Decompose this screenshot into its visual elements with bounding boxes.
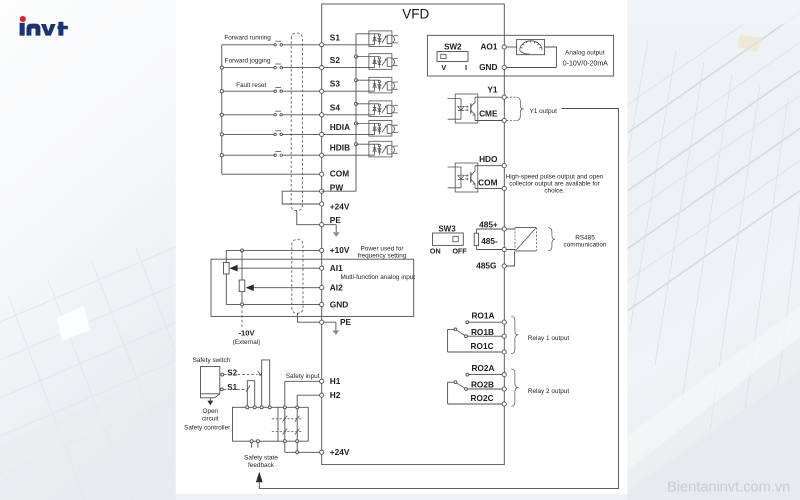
svg-text:+24V: +24V: [330, 202, 350, 212]
terminals controller top: [246, 406, 299, 409]
svg-text:Y1 output: Y1 output: [530, 108, 558, 115]
meter analog output: [517, 40, 545, 55]
wire AO1 to meter: [506, 46, 516, 48]
safety controller box: [233, 407, 279, 441]
svg-text:485+: 485+: [479, 219, 498, 229]
wire meter to GND: [506, 47, 556, 68]
svg-text:COM: COM: [330, 169, 349, 179]
wire HDIA row: [222, 133, 375, 135]
svg-text:RO2B: RO2B: [471, 380, 494, 390]
svg-text:Safety controller: Safety controller: [184, 425, 231, 432]
svg-text:Forward running: Forward running: [224, 35, 271, 42]
junction S3 on bus: [220, 90, 223, 93]
junction GND pot2: [241, 303, 244, 306]
wire COM output: [475, 187, 502, 189]
svg-text:HDIA: HDIA: [330, 122, 350, 132]
resistor RS485 terminator: [474, 229, 478, 250]
wire feedback loop: [259, 109, 618, 489]
svg-text:communication: communication: [564, 241, 607, 248]
terminal H2: [320, 390, 341, 400]
terminal +24V: [320, 202, 350, 212]
wire H1: [285, 381, 320, 452]
switch Forward jogging S2: [274, 64, 283, 69]
shielded cable analog input: [292, 240, 303, 314]
terminal RO2B: [471, 380, 506, 392]
wire RO1A: [469, 321, 502, 323]
svg-text:Relay 2 output: Relay 2 output: [528, 388, 569, 395]
svg-text:SW3: SW3: [438, 225, 456, 234]
terminal RO1A: [471, 311, 506, 325]
junction HDIA on bus: [220, 133, 223, 136]
svg-text:SW2: SW2: [444, 42, 462, 51]
svg-text:H1: H1: [330, 376, 341, 386]
wire left input bus: [221, 45, 223, 174]
brace RS485: [548, 228, 555, 251]
svg-text:HDIB: HDIB: [330, 143, 350, 153]
wire -10V external dashed: [241, 306, 243, 327]
wire S4 row: [222, 114, 375, 116]
svg-text:RO1B: RO1B: [471, 327, 494, 337]
jumper PW to +24V: [282, 191, 319, 204]
wire S1 row: [222, 44, 375, 46]
svg-text:(External): (External): [233, 339, 261, 346]
wire RO1B: [467, 335, 502, 337]
svg-text:485-: 485-: [481, 236, 498, 246]
junction HDIB on bus: [220, 154, 223, 157]
contact S2 circle: [221, 373, 224, 376]
terminal HDO: [479, 154, 506, 168]
svg-text:High-speed pulse output and op: High-speed pulse output and open: [506, 174, 604, 181]
brace relay 1: [511, 316, 518, 353]
wire Y1: [475, 96, 502, 98]
terminal HDIB: [320, 143, 350, 158]
wire +10V row: [226, 250, 319, 262]
terminal AI2: [320, 282, 343, 292]
svg-text:S4: S4: [330, 102, 341, 112]
svg-text:feedback: feedback: [248, 462, 275, 469]
svg-text:VFD: VFD: [402, 6, 429, 21]
wire 485+: [476, 228, 515, 230]
optocoupler S3 input: [356, 77, 398, 93]
terminal 485+: [479, 219, 506, 231]
terminal 485G: [476, 261, 506, 271]
safety contact levers: [283, 416, 300, 435]
switch Fault reset S3: [274, 88, 283, 93]
svg-text:S1: S1: [227, 383, 237, 392]
svg-text:PE: PE: [340, 317, 352, 327]
feedback arrow: [256, 472, 263, 489]
wire S1 dashed: [223, 388, 246, 390]
terminal GND analog: [479, 62, 506, 72]
terminal S4: [320, 102, 341, 117]
wire 485G: [506, 251, 514, 266]
wire RO2B: [467, 388, 502, 390]
svg-text:GND: GND: [330, 299, 348, 309]
safety channel rect S2: [262, 360, 270, 407]
safety switch body: [201, 367, 220, 398]
junction +10V pot2: [241, 249, 244, 252]
wire shield to PE: [297, 211, 320, 225]
wire shield2 to PE: [297, 313, 319, 322]
terminal PE: [320, 215, 342, 227]
svg-text:frequency setting: frequency setting: [358, 253, 407, 260]
logo invt letters: [20, 22, 68, 36]
wire S2 dashed: [224, 374, 258, 376]
terminal GND: [320, 299, 349, 309]
svg-text:Safety switch: Safety switch: [193, 357, 231, 364]
optocoupler S4 input: [356, 101, 398, 117]
terminal H1: [320, 376, 341, 386]
terminal COM: [320, 169, 350, 179]
svg-text:Y1: Y1: [487, 85, 498, 95]
svg-text:AO1: AO1: [480, 42, 497, 52]
svg-text:PE: PE: [330, 215, 342, 225]
terminal AI1: [320, 263, 343, 273]
wire RO2C: [448, 403, 503, 405]
svg-text:Analog output: Analog output: [565, 49, 605, 56]
switch HDIB: [274, 152, 283, 157]
ground PE 2: [324, 322, 340, 335]
terminal CME: [479, 109, 506, 123]
relay contact RO1: [448, 321, 469, 352]
brace Y1 output: [516, 97, 524, 120]
switch S4: [274, 111, 283, 116]
svg-text:RO2A: RO2A: [471, 363, 494, 373]
svg-text:HDO: HDO: [479, 154, 498, 164]
terminal RO1B: [471, 327, 506, 339]
wire HDIB row: [222, 154, 375, 156]
svg-text:H2: H2: [330, 390, 341, 400]
wire AI1 row: [238, 267, 320, 269]
wire opto common bus: [322, 34, 356, 191]
svg-text:S1: S1: [330, 32, 341, 42]
svg-text:+10V: +10V: [330, 245, 350, 255]
optocoupler S1 input: [356, 31, 398, 47]
wire S2 row: [222, 67, 375, 69]
optocoupler HDIA input: [356, 121, 398, 137]
svg-text:circuit: circuit: [202, 415, 219, 422]
wiper arrow AI2: [246, 284, 254, 291]
svg-text:RO1A: RO1A: [471, 311, 494, 321]
twisted pair cable RS485: [515, 228, 537, 251]
svg-text:Fault reset: Fault reset: [236, 82, 266, 89]
wire S3 row: [222, 90, 375, 92]
terminal HDIA: [320, 122, 350, 137]
optocoupler Y1 output: [448, 94, 478, 123]
svg-text:Safety input: Safety input: [286, 373, 320, 380]
junction opto bus HDIA: [355, 122, 358, 125]
svg-text:S2: S2: [330, 55, 341, 65]
terminal 485-: [481, 236, 506, 251]
terminal +24V bottom: [320, 447, 350, 457]
box multi-function analog input: [211, 259, 414, 316]
svg-text:S2: S2: [227, 368, 237, 377]
svg-text:Multi-function analog input: Multi-function analog input: [340, 274, 415, 281]
terminal RO1C: [471, 341, 507, 354]
svg-text:0-10V/0-20mA: 0-10V/0-20mA: [563, 60, 608, 67]
wire GND row: [226, 303, 319, 305]
shielded cable digital inputs: [291, 33, 302, 211]
svg-text:V: V: [441, 63, 446, 72]
svg-text:choice.: choice.: [544, 187, 564, 194]
switch SW3: [433, 233, 464, 245]
wiper arrow AI1: [229, 265, 237, 272]
switch HDIA: [274, 131, 283, 136]
junction +24V feedback: [296, 451, 299, 454]
safety contacts box: [278, 407, 308, 441]
svg-text:+24V: +24V: [330, 447, 350, 457]
wire feedback stubs: [252, 443, 258, 448]
svg-text:I: I: [465, 63, 467, 72]
wire pot2 top: [241, 250, 243, 280]
svg-text:Open: Open: [202, 408, 218, 415]
svg-text:AI2: AI2: [330, 282, 343, 292]
lever S2: [258, 371, 262, 375]
junction opto bus S2: [355, 55, 358, 58]
svg-text:485G: 485G: [476, 261, 496, 271]
wire +24V bottom row: [285, 451, 320, 453]
svg-text:AI1: AI1: [330, 263, 343, 273]
svg-text:Relay 1 output: Relay 1 output: [528, 335, 569, 342]
VFD enclosure box: [322, 4, 505, 465]
switch Forward running S1: [274, 41, 283, 46]
junction opto bus S4: [355, 102, 358, 105]
wire RO1C: [448, 351, 503, 353]
open circuit arrow: [207, 398, 213, 405]
logo invt red dot: [20, 16, 26, 22]
junction opto bus S3: [355, 79, 358, 82]
optocoupler S2 input: [356, 54, 398, 70]
ground PE: [324, 225, 340, 237]
wire HDO: [475, 165, 502, 167]
terminal PE 2: [320, 317, 352, 327]
svg-text:-10V: -10V: [238, 328, 255, 337]
svg-text:COM: COM: [478, 178, 497, 188]
wire CME: [475, 120, 502, 122]
terminal +10V: [320, 245, 350, 255]
svg-text:Bientaninvt.com.vn: Bientaninvt.com.vn: [667, 480, 790, 496]
svg-text:Forward jogging: Forward jogging: [225, 57, 271, 64]
svg-text:ON: ON: [430, 246, 441, 255]
svg-text:S3: S3: [330, 79, 341, 89]
potentiometer AI2: [239, 280, 245, 304]
terminal S2: [320, 55, 341, 70]
analog output group box: [427, 35, 613, 76]
safety channel rect S1: [247, 381, 254, 408]
relay contact RO2: [448, 373, 469, 404]
junction S2 on bus: [220, 66, 223, 69]
terminal COM output: [478, 178, 506, 191]
svg-text:CME: CME: [479, 109, 498, 119]
wire H2: [297, 395, 319, 451]
terminals controller bottom: [250, 440, 299, 443]
lever S1: [246, 386, 250, 392]
wire 485-: [476, 249, 515, 251]
svg-text:GND: GND: [479, 62, 497, 72]
terminal PW: [320, 182, 344, 193]
white diagram panel: [176, 0, 628, 494]
brace relay 2: [511, 369, 518, 406]
svg-text:RO2C: RO2C: [471, 393, 494, 403]
terminal RO2C: [471, 393, 507, 406]
terminal S1: [320, 32, 341, 47]
wire AI2 row: [254, 287, 320, 289]
terminal AO1: [480, 42, 506, 52]
optocoupler HDIB input: [356, 141, 398, 157]
wire COM row: [222, 173, 320, 175]
svg-text:Safety state: Safety state: [244, 454, 278, 461]
terminal S3: [320, 79, 341, 94]
junction S4 on bus: [220, 113, 223, 116]
terminal RO2A: [471, 363, 506, 377]
wire RO2A: [469, 374, 502, 376]
svg-text:Power used for: Power used for: [361, 246, 405, 253]
dashed Y1 CME to brace: [506, 97, 516, 120]
optocoupler HDO output: [448, 163, 478, 192]
potentiometer AI1: [224, 262, 230, 304]
dashed safety contact rows: [272, 419, 303, 432]
junction opto bus HDIB: [355, 143, 358, 146]
terminal Y1: [487, 85, 506, 100]
svg-text:RO1C: RO1C: [471, 341, 494, 351]
switch SW2: [437, 52, 468, 62]
svg-text:OFF: OFF: [452, 246, 467, 255]
contact S1 circle: [220, 388, 223, 391]
